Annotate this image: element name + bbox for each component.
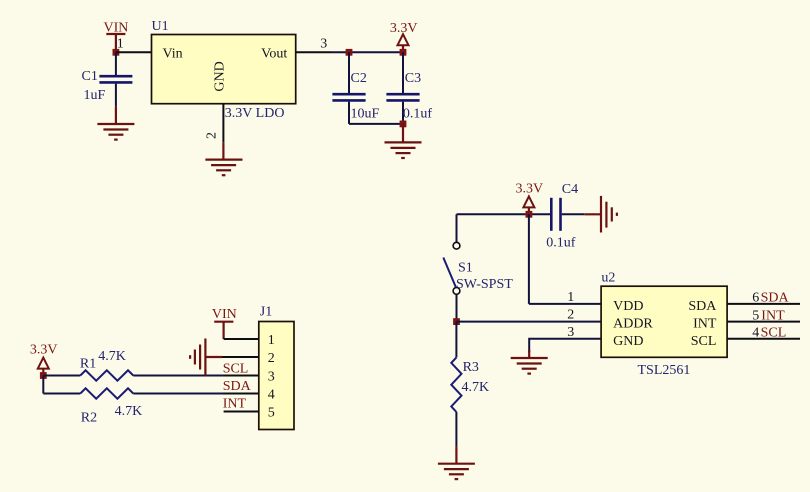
svg-text:3: 3: [320, 36, 327, 51]
ground below U1 pin 2: [205, 142, 242, 175]
connector J1 body: [259, 322, 294, 430]
pin 1 of J1: [224, 338, 259, 340]
svg-text:GND: GND: [613, 334, 643, 349]
pin 1 of U1: [116, 51, 152, 53]
svg-text:SCL: SCL: [223, 362, 249, 377]
svg-text:4.7K: 4.7K: [98, 349, 126, 364]
svg-text:1: 1: [117, 37, 124, 52]
wire R2 to J1 pin4: [133, 393, 258, 395]
svg-text:0.1uf: 0.1uf: [403, 106, 433, 121]
svg-text:5: 5: [752, 308, 759, 323]
capacitor C3: [386, 52, 419, 124]
svg-text:C4: C4: [562, 182, 578, 197]
svg-text:3: 3: [567, 325, 574, 340]
wire switch to ADDR (pin 2 of u2): [456, 294, 458, 321]
power port VIN (at J1): [212, 307, 237, 339]
capacitor C2: [332, 52, 365, 124]
junction at 3.3V u2 node: [526, 211, 533, 218]
wire switch top to C4: [457, 213, 552, 215]
wire SDA row left: [43, 393, 80, 395]
svg-text:R3: R3: [463, 360, 479, 375]
svg-text:TSL2561: TSL2561: [638, 363, 691, 378]
svg-text:INT: INT: [223, 397, 247, 412]
svg-text:INT: INT: [761, 308, 785, 323]
pin 6 of u2 (SDA): [727, 303, 800, 305]
svg-text:GND: GND: [212, 61, 227, 91]
svg-text:2: 2: [268, 351, 275, 366]
svg-text:ADDR: ADDR: [613, 317, 653, 332]
svg-text:SDA: SDA: [761, 291, 790, 306]
pin 3 of U1: [296, 51, 332, 53]
resistor R3: [451, 357, 461, 412]
junction at C2 top: [346, 49, 353, 56]
svg-text:SDA: SDA: [223, 379, 252, 394]
wire switch top vertical: [456, 214, 458, 242]
pin 5 of J1: [224, 411, 259, 413]
wire 3.3V down to SDA row: [42, 376, 44, 394]
svg-text:3.3V LDO: 3.3V LDO: [225, 106, 285, 121]
svg-text:SW-SPST: SW-SPST: [456, 277, 513, 292]
svg-text:Vout: Vout: [261, 47, 287, 62]
svg-text:1: 1: [567, 290, 574, 305]
svg-text:6: 6: [752, 291, 759, 306]
capacitor C4: [551, 198, 584, 231]
pin 5 of u2 (INT): [727, 321, 800, 323]
svg-text:u2: u2: [601, 270, 615, 285]
svg-text:10uF: 10uF: [351, 106, 380, 121]
svg-text:VDD: VDD: [613, 299, 643, 314]
svg-text:SDA: SDA: [688, 299, 717, 314]
svg-text:4.7K: 4.7K: [115, 404, 143, 419]
pin 4 of u2 (SCL): [727, 338, 800, 340]
junction at 3.3V pull-up node: [40, 372, 47, 379]
wire SCL row left: [43, 375, 80, 377]
svg-text:S1: S1: [458, 261, 473, 276]
ground below R3: [438, 446, 475, 479]
capacitor C1: [99, 52, 132, 106]
junction at switch/R3/ADDR node: [453, 318, 460, 325]
svg-text:Vin: Vin: [163, 47, 183, 62]
wire to VDD (pin 1 of u2): [529, 303, 601, 305]
ground below C3: [385, 124, 422, 158]
wire C2 bottom to C3 bottom: [349, 123, 403, 125]
svg-text:C3: C3: [405, 71, 421, 86]
resistor R1: [80, 370, 133, 380]
ground at J1 pin 2 (rotated): [190, 339, 222, 376]
power port 3.3V (bottom-left): [30, 343, 58, 376]
svg-text:INT: INT: [693, 317, 717, 332]
power port 3.3V (top): [390, 21, 418, 52]
wire R1 to J1 pin3: [133, 375, 258, 377]
svg-text:5: 5: [268, 406, 275, 421]
power port 3.3V (at u2): [515, 181, 543, 214]
wire Vout to 3.3V: [332, 51, 404, 53]
svg-text:3: 3: [268, 370, 275, 385]
svg-text:2: 2: [567, 308, 574, 323]
wire 3.3V down to VDD pin: [528, 214, 530, 304]
junction at C3 bottom: [400, 121, 407, 128]
power port VIN (top-left): [103, 21, 128, 53]
wire junction down to R3: [455, 322, 457, 358]
svg-text:J1: J1: [260, 305, 272, 320]
svg-text:4.7K: 4.7K: [462, 380, 490, 395]
svg-text:1uF: 1uF: [84, 88, 106, 103]
IC u2 body: [601, 286, 727, 357]
svg-text:U1: U1: [152, 19, 169, 34]
pin 2 of U1: [222, 104, 224, 143]
wire junction to ADDR: [457, 321, 602, 323]
svg-text:C2: C2: [351, 71, 367, 86]
svg-text:R1: R1: [80, 356, 96, 371]
op-amp U1 body: [152, 35, 296, 104]
svg-text:3.3V: 3.3V: [515, 181, 543, 196]
svg-text:4: 4: [752, 326, 759, 341]
wire GND pin 3 of u2: [529, 339, 601, 352]
pin 3 of J1: [224, 375, 259, 377]
svg-text:R2: R2: [81, 410, 97, 425]
svg-text:VIN: VIN: [212, 307, 237, 322]
svg-text:SCL: SCL: [761, 326, 787, 341]
svg-text:1: 1: [268, 333, 275, 348]
svg-text:4: 4: [268, 388, 275, 403]
junction at VIN node: [113, 49, 120, 56]
svg-text:C1: C1: [82, 69, 98, 84]
svg-text:2: 2: [205, 132, 220, 139]
ground below u2 pin 3: [511, 350, 548, 374]
junction at 3.3V node: [400, 49, 407, 56]
svg-text:0.1uf: 0.1uf: [546, 236, 576, 251]
ground right of C4 (rotated): [584, 196, 617, 233]
wire R3 to ground: [455, 412, 457, 447]
pin 4 of J1: [224, 393, 259, 395]
ground below C1: [97, 107, 134, 140]
switch S1: [443, 242, 460, 294]
pin 2 of J1: [220, 356, 259, 358]
svg-text:SCL: SCL: [691, 334, 717, 349]
svg-text:3.3V: 3.3V: [30, 343, 58, 358]
resistor R2: [80, 388, 133, 398]
